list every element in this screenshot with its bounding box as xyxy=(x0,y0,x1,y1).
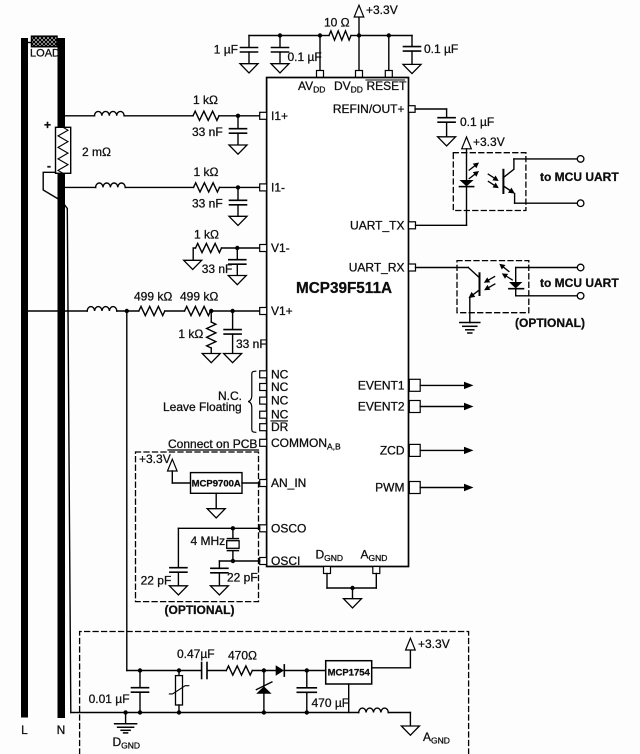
ground (V1+ filter) xyxy=(224,354,242,363)
svg-text:N: N xyxy=(57,723,66,737)
ground (I1- filter) xyxy=(229,216,247,225)
resistor 470 Ohm xyxy=(226,666,252,675)
earth ground DGND xyxy=(115,713,137,733)
svg-text:I1-: I1- xyxy=(271,181,285,195)
svg-text:499 kΩ: 499 kΩ xyxy=(180,290,218,304)
L bus bar xyxy=(21,38,28,718)
wire REFIN/OUT+ xyxy=(415,108,447,110)
svg-text:PWM: PWM xyxy=(375,481,404,495)
Connect on PCB label xyxy=(168,437,259,451)
svg-text:33 nF: 33 nF xyxy=(192,125,223,139)
wire ground join xyxy=(327,587,376,589)
node DGND xyxy=(123,710,127,714)
wire TX emitter to terminal xyxy=(515,202,578,204)
svg-text:4 MHz: 4 MHz xyxy=(191,534,226,548)
pin AVDD xyxy=(317,71,324,78)
pin ZCD xyxy=(409,444,420,456)
svg-text:22 pF: 22 pF xyxy=(141,574,172,588)
pin DGND xyxy=(324,567,331,574)
pin NC 3 xyxy=(260,397,267,404)
svg-text:MCP1754: MCP1754 xyxy=(328,668,371,679)
svg-text:LOAD: LOAD xyxy=(30,48,60,60)
EVENT2 output arrow xyxy=(420,403,473,410)
resistor 1 kOhm (V1-) xyxy=(196,243,222,252)
node V1- filter xyxy=(235,246,239,250)
wire AN_IN xyxy=(242,482,260,484)
wire between dividers xyxy=(165,310,185,312)
node V1+ filter xyxy=(230,309,234,313)
wire regulator output xyxy=(372,667,411,669)
wire xyxy=(125,186,193,188)
svg-text:UART_RX: UART_RX xyxy=(349,261,405,275)
svg-text:0.47µF: 0.47µF xyxy=(177,647,215,661)
PWM output arrow xyxy=(420,484,473,491)
capacitor 0.1 uF (AVDD) xyxy=(272,36,289,64)
svg-text:MCP39F511A: MCP39F511A xyxy=(296,280,392,297)
wire to I1- pin xyxy=(220,186,260,188)
optocoupler U2 dashed box xyxy=(453,153,526,211)
ground (MCP9700A) xyxy=(207,493,225,518)
ZCD output arrow xyxy=(420,447,473,454)
ferrite bead (I1+) xyxy=(95,111,125,115)
terminal (RX in high) xyxy=(577,264,584,271)
photo arrows (RX transistor) xyxy=(482,274,496,293)
svg-text:10 Ω: 10 Ω xyxy=(324,16,350,30)
svg-text:UART_TX: UART_TX xyxy=(350,218,404,232)
pin REFIN/OUT+ xyxy=(409,106,416,113)
wire DGND stub xyxy=(326,574,328,589)
LED (opto TX) xyxy=(460,180,474,225)
wire DVDD stub xyxy=(358,36,360,71)
ground AGND xyxy=(401,713,419,736)
kelvin sense wire from shunt bottom xyxy=(43,172,58,199)
svg-text:REFIN/OUT+: REFIN/OUT+ xyxy=(333,102,405,116)
LOAD fuse box xyxy=(32,36,58,47)
resistor 1 kOhm (I1+) xyxy=(193,111,219,120)
regulator U5 MCP1754 xyxy=(326,661,372,684)
pin RESET xyxy=(385,71,392,78)
N bus bar xyxy=(58,38,66,718)
svg-text:0.1 µF: 0.1 µF xyxy=(424,42,458,56)
ground (REFIN cap) xyxy=(438,137,456,146)
node 470uF bottom xyxy=(305,710,309,714)
wire PSU top rail xyxy=(127,670,202,672)
pin OSCO xyxy=(260,525,267,532)
optional crystal dashed box xyxy=(136,452,259,602)
svg-text:to MCU UART: to MCU UART xyxy=(540,170,619,184)
pin PWM xyxy=(409,482,420,494)
wire regulator ground stub xyxy=(348,684,350,713)
capacitor 33 nF (I1+) xyxy=(230,116,247,145)
svg-text:NC: NC xyxy=(271,380,289,394)
pin NC 1 xyxy=(260,371,267,378)
node I1+ filter xyxy=(236,114,240,118)
svg-text:33 nF: 33 nF xyxy=(192,197,223,211)
svg-text:470 µF: 470 µF xyxy=(312,696,350,710)
wire RX anode to terminal xyxy=(516,267,578,269)
svg-text:NC: NC xyxy=(271,394,289,408)
temperature sensor U4 MCP9700A xyxy=(191,473,243,494)
wire LOAD stub xyxy=(26,42,33,44)
svg-text:0.1 µF: 0.1 µF xyxy=(460,115,494,129)
svg-text:Connect on PCB: Connect on PCB xyxy=(168,437,257,451)
svg-text:ZCD: ZCD xyxy=(380,443,405,457)
pin UART_RX xyxy=(409,264,416,271)
svg-text:AN_IN: AN_IN xyxy=(271,476,306,490)
svg-text:499 kΩ: 499 kΩ xyxy=(134,290,172,304)
svg-text:OSCI: OSCI xyxy=(271,554,300,568)
+3.3V supply arrow (opto TX) xyxy=(462,137,472,180)
wire xyxy=(252,670,275,672)
svg-text:+3.3V: +3.3V xyxy=(366,3,398,17)
node AVDD cap xyxy=(278,33,282,37)
node I1- filter xyxy=(236,185,240,189)
pin NC 2 xyxy=(260,384,267,391)
wire xyxy=(124,115,193,117)
pin NC 4 xyxy=(260,411,267,418)
photo arrows (TX transistor) xyxy=(487,172,501,191)
svg-text:1 kΩ: 1 kΩ xyxy=(194,228,219,242)
node varistor top xyxy=(177,668,181,672)
wire TX collector to terminal xyxy=(514,158,578,160)
wire UART_TX xyxy=(416,224,467,226)
resistor 499 kOhm second xyxy=(185,306,211,315)
capacitor 0.1 uF (DVDD right) xyxy=(404,36,421,65)
pin EVENT2 xyxy=(409,401,420,413)
pin I1- xyxy=(260,184,267,191)
wire UART_RX xyxy=(416,267,469,269)
wire AVDD stub xyxy=(319,36,321,71)
wire OSCO xyxy=(178,527,259,529)
svg-text:1 kΩ: 1 kΩ xyxy=(194,165,219,179)
neutral feed wire to PSU xyxy=(65,205,71,712)
NC brace xyxy=(248,371,256,432)
svg-text:470Ω: 470Ω xyxy=(228,649,257,663)
svg-text:+3.3V: +3.3V xyxy=(418,637,450,651)
wire I1+ from bus xyxy=(64,115,95,117)
node AVDD pin xyxy=(318,33,322,37)
+3.3V supply arrow (MCP9700A) xyxy=(168,459,191,483)
resistor 1 kOhm (V1+ divider lower) xyxy=(207,311,216,354)
ground (V1- filter) xyxy=(228,276,246,285)
svg-text:2 mΩ: 2 mΩ xyxy=(82,145,111,159)
wire V1- resistor to ground xyxy=(193,248,195,260)
node zener bottom xyxy=(262,710,266,714)
wire AGND stub xyxy=(375,574,377,589)
pin I1+ xyxy=(260,112,267,119)
+3.3V supply arrow (PSU out) xyxy=(406,638,416,668)
ground (0.1 uF right) xyxy=(403,64,421,73)
pin AGND xyxy=(373,567,380,574)
wire RESET stub xyxy=(388,36,390,71)
wire I1- from bus xyxy=(64,186,96,188)
capacitor 33 nF (I1-) xyxy=(230,187,247,216)
resistor 1 kOhm (I1-) xyxy=(194,183,220,192)
svg-text:1 µF: 1 µF xyxy=(214,43,238,57)
node V1+ divider xyxy=(209,309,213,313)
zener diode D2 xyxy=(256,671,272,713)
svg-text:(OPTIONAL): (OPTIONAL) xyxy=(515,316,585,330)
svg-text:+3.3V: +3.3V xyxy=(473,135,505,149)
svg-text:AGND: AGND xyxy=(423,730,450,746)
svg-text:DGND: DGND xyxy=(113,735,141,751)
wire OSCI xyxy=(219,560,259,562)
LED emission arrows (TX) xyxy=(467,160,480,181)
node OSCO xyxy=(231,526,235,530)
svg-text:V1+: V1+ xyxy=(271,304,293,318)
pin EVENT1 xyxy=(409,379,420,391)
svg-text:1 kΩ: 1 kΩ xyxy=(193,93,218,107)
node 470uF xyxy=(305,668,309,672)
pin OSCI xyxy=(260,558,267,565)
node 0.01uF bottom xyxy=(138,710,142,714)
svg-text:1 kΩ: 1 kΩ xyxy=(178,327,203,341)
wire to I1+ pin xyxy=(219,115,260,117)
capacitor 1 uF xyxy=(241,36,258,64)
svg-text:+: + xyxy=(44,118,51,132)
ground (V1- resistor) xyxy=(184,260,202,269)
pin DVDD xyxy=(356,71,363,78)
+3.3V supply arrow (top) xyxy=(354,5,364,35)
wire top rail right xyxy=(359,35,412,37)
svg-text:22 pF: 22 pF xyxy=(227,571,258,585)
wire to AGND xyxy=(388,712,410,714)
node 0.01uF xyxy=(138,668,142,672)
svg-text:Leave Floating: Leave Floating xyxy=(163,400,242,414)
pin V1- xyxy=(260,245,267,252)
resistor 499 kOhm first xyxy=(139,306,165,315)
RESET pin label with overline xyxy=(366,79,407,93)
node varistor bottom xyxy=(177,710,181,714)
ferrite bead (I1-) xyxy=(96,183,126,187)
ground (22 pF right) xyxy=(210,586,228,595)
wire top rail left xyxy=(249,35,320,37)
pin COMMON xyxy=(260,439,267,446)
svg-text:to MCU UART: to MCU UART xyxy=(540,276,619,290)
svg-text:33 nF: 33 nF xyxy=(236,337,267,351)
svg-text:RESET: RESET xyxy=(367,79,408,93)
PSU dashed box xyxy=(80,632,469,754)
wire xyxy=(207,670,226,672)
capacitor 22 pF left xyxy=(170,528,187,586)
pin AN_IN xyxy=(260,480,267,487)
ferrite bead (V1+) xyxy=(87,307,117,311)
pin DR xyxy=(260,424,267,431)
LED emission arrows (RX) xyxy=(497,261,513,282)
wire RX cathode to terminal xyxy=(516,295,578,297)
optocoupler U3 dashed box xyxy=(457,261,529,313)
ferrite bead (PSU AGND) xyxy=(359,708,389,712)
pin UART_TX xyxy=(409,222,416,229)
capacitor 0.01 uF xyxy=(132,671,149,713)
ground (V1+ divider) xyxy=(202,354,220,363)
node OSCI xyxy=(231,559,235,563)
node ground join xyxy=(350,586,354,590)
svg-text:V1-: V1- xyxy=(271,241,290,255)
capacitor 0.1 uF (REFIN) xyxy=(438,109,455,137)
node RESET xyxy=(387,33,391,37)
phototransistor Q (RX) xyxy=(467,268,482,323)
svg-text:+3.3V: +3.3V xyxy=(139,452,171,466)
crystal Y1 4 MHz xyxy=(227,528,239,561)
capacitor 33 nF (V1+) xyxy=(224,311,241,354)
wire PSU bottom rail xyxy=(71,712,359,714)
earth ground (RX opto) xyxy=(460,323,480,334)
capacitor 33 nF (V1-) xyxy=(229,248,246,276)
varistor RV1 xyxy=(169,671,188,713)
IC U1 MCP39F511A body xyxy=(267,78,409,567)
capacitor 22 pF right xyxy=(211,561,228,586)
resistor 10 Ohm xyxy=(320,31,359,40)
LED (opto RX) xyxy=(509,268,524,296)
node DVDD xyxy=(357,33,361,37)
svg-text:0.01 µF: 0.01 µF xyxy=(89,692,130,706)
wire xyxy=(117,310,139,312)
svg-text:L: L xyxy=(21,723,28,737)
terminal (RX in low) xyxy=(577,293,584,300)
svg-text:EVENT2: EVENT2 xyxy=(358,400,405,414)
svg-text:DR: DR xyxy=(271,420,289,434)
ground (1 uF) xyxy=(240,64,258,73)
phototransistor Q (TX) xyxy=(502,159,517,203)
capacitor 0.47 uF series xyxy=(202,663,207,679)
ground (I1+ filter) xyxy=(229,145,247,154)
node V1+ PSU feed xyxy=(125,309,129,313)
svg-text:OSCO: OSCO xyxy=(271,521,306,535)
ground (22 pF left) xyxy=(169,586,187,595)
wire to V1- pin xyxy=(222,247,260,249)
ground (IC) xyxy=(344,588,362,608)
wire V1+ from L bus xyxy=(28,310,87,312)
pin V1+ xyxy=(260,308,267,315)
wire PSU feed from V1+ node xyxy=(126,311,128,671)
svg-text:33 nF: 33 nF xyxy=(202,262,233,276)
ground (0.1 uF AVDD) xyxy=(271,64,289,73)
NC 4 label underlined xyxy=(271,408,289,422)
svg-text:MCP9700A: MCP9700A xyxy=(192,479,241,490)
wire to V1+ pin xyxy=(211,310,260,312)
capacitor 470 uF xyxy=(297,671,316,713)
terminal (TX out high) xyxy=(577,156,584,163)
terminal (TX out low) xyxy=(577,200,584,207)
shunt resistor 2 mOhm xyxy=(56,127,71,173)
node zener top xyxy=(262,668,266,672)
svg-text:(OPTIONAL): (OPTIONAL) xyxy=(165,603,235,617)
svg-text:I1+: I1+ xyxy=(271,109,288,123)
svg-text:EVENT1: EVENT1 xyxy=(358,378,405,392)
EVENT1 output arrow xyxy=(420,382,473,389)
diode D1 series xyxy=(276,665,326,676)
svg-text:0.1 µF: 0.1 µF xyxy=(288,50,322,64)
svg-text:-: - xyxy=(47,159,51,173)
